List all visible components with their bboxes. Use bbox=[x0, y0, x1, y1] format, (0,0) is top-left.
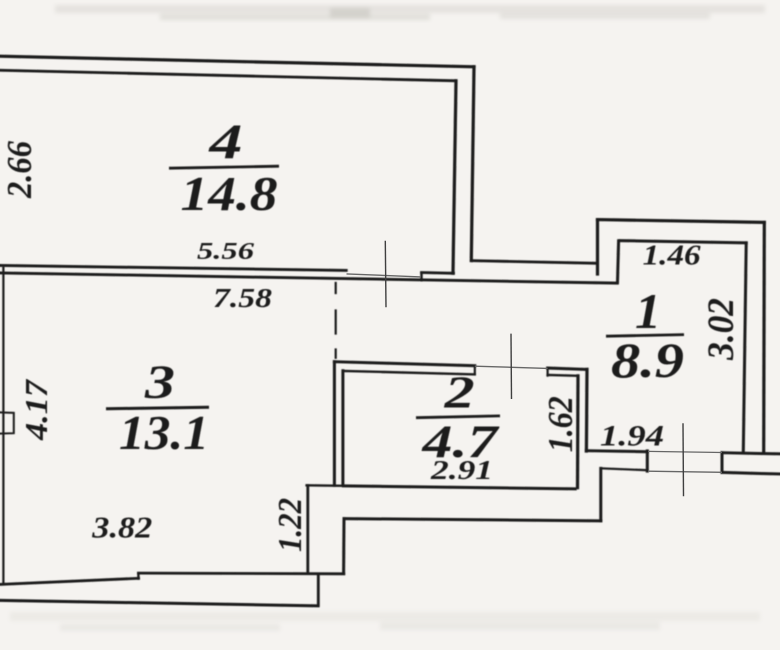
wall: jamb step at x421 bbox=[420, 273, 422, 281]
svg-text:8.9: 8.9 bbox=[611, 332, 684, 388]
wall: room 2 top inner edge bbox=[343, 371, 475, 375]
svg-text:14.8: 14.8 bbox=[181, 166, 278, 221]
wall: vertical x344 bbox=[342, 519, 345, 574]
wall: bottom band bottom edge right bbox=[722, 472, 780, 474]
svg-text:7.58: 7.58 bbox=[213, 283, 273, 313]
wall: room 2 outer left bbox=[333, 362, 336, 486]
svg-text:2: 2 bbox=[443, 367, 474, 418]
wall: room 1 inner right bbox=[743, 243, 746, 452]
wall: bottom step line A3 bbox=[138, 572, 343, 576]
thin threshold: room4 door bbox=[347, 274, 421, 277]
svg-text:1.22: 1.22 bbox=[272, 498, 309, 552]
svg-text:5.56: 5.56 bbox=[197, 239, 254, 265]
wall: room 4 top inner bbox=[0, 70, 456, 81]
svg-text:13.1: 13.1 bbox=[119, 405, 209, 460]
survey tick at x511 bbox=[510, 334, 513, 399]
svg-text:3.82: 3.82 bbox=[91, 510, 152, 545]
svg-text:4: 4 bbox=[208, 113, 242, 169]
wall: room 4 outer right bbox=[471, 67, 474, 261]
wall: horizontal y485.6 bbox=[307, 484, 344, 487]
wall: room 1 inner top bbox=[620, 241, 746, 243]
wall: bottom left line A1 bbox=[0, 578, 139, 584]
wall: room 1 outer left stub bbox=[596, 220, 599, 274]
survey tick at x385 bbox=[384, 241, 387, 307]
wall: vertical x307.8 bbox=[306, 486, 309, 574]
wall: room 2 bottom bbox=[344, 486, 576, 489]
thin threshold: room1 door bottom bbox=[648, 471, 722, 472]
room 4 fraction bar bbox=[169, 166, 279, 168]
wall: room 1 inner left bbox=[618, 241, 619, 282]
svg-text:1.94: 1.94 bbox=[600, 420, 664, 453]
wall: room 2 top right outer edge bbox=[548, 368, 587, 369]
room 2 fraction bar bbox=[416, 416, 500, 418]
wall: room 2 door right jamb bbox=[546, 368, 548, 375]
wall: room 4 bottom wall top edge bbox=[0, 265, 346, 270]
dashed line at x335.7 bbox=[335, 283, 337, 358]
scan artifact: faint bottom streak bbox=[10, 612, 760, 631]
wall: corridor bottom edge long line E bbox=[0, 273, 617, 283]
wall: jamb block bottom edge F bbox=[422, 271, 454, 275]
svg-text:3.02: 3.02 bbox=[701, 298, 742, 361]
wall: room 1 outer top bbox=[598, 220, 765, 223]
wall: room 2 inner left bbox=[341, 371, 344, 486]
wall: room 2 inner right bbox=[576, 376, 580, 488]
svg-text:1.62: 1.62 bbox=[541, 396, 580, 452]
room 1 fraction bar bbox=[606, 335, 684, 337]
wall: step at x138 bbox=[137, 573, 139, 578]
svg-text:2.66: 2.66 bbox=[0, 141, 39, 199]
wall: corridor outer top bbox=[471, 261, 597, 264]
thin threshold: room1 door top bbox=[648, 451, 722, 452]
wall: room 1 outer right bbox=[762, 222, 766, 453]
wall: room1 bottom wall left segment top edge bbox=[586, 451, 647, 452]
svg-text:3: 3 bbox=[144, 356, 175, 409]
wall: vertical x600.8 bbox=[599, 468, 602, 520]
wall: door left jamb x647 bbox=[646, 451, 649, 471]
wall: room1 bottom wall left segment bottom edge bbox=[601, 468, 648, 470]
wall: vertical x318 bbox=[317, 576, 320, 605]
wall: room 2 top right inner edge bbox=[548, 374, 578, 377]
wall: bottom outer line A5 bbox=[0, 600, 318, 605]
svg-text:1.46: 1.46 bbox=[643, 241, 701, 272]
wall: room 3 left bbox=[2, 268, 4, 584]
room 3 fraction bar bbox=[106, 407, 209, 409]
wall: room 4 inner right bbox=[453, 81, 456, 273]
scan artifact: faint top streak bbox=[55, 5, 765, 20]
wall: bottom band top edge right bbox=[722, 453, 780, 454]
wall: horizontal y519.6 bbox=[344, 519, 601, 521]
svg-text:2.91: 2.91 bbox=[430, 455, 493, 485]
window marker box on left wall bbox=[0, 412, 14, 433]
wall: room 2 outer right bbox=[585, 369, 589, 451]
svg-text:1: 1 bbox=[635, 283, 661, 339]
wall: room 4 top outer bbox=[0, 56, 474, 67]
wall: room 2 door left jamb bbox=[474, 366, 476, 375]
wall: door right jamb x722 bbox=[721, 453, 724, 473]
wall: room 2 top outer edge bbox=[334, 362, 474, 366]
thin threshold: room2 door bbox=[475, 366, 548, 368]
svg-text:4.17: 4.17 bbox=[18, 378, 54, 441]
survey tick at x683 bbox=[682, 423, 685, 496]
